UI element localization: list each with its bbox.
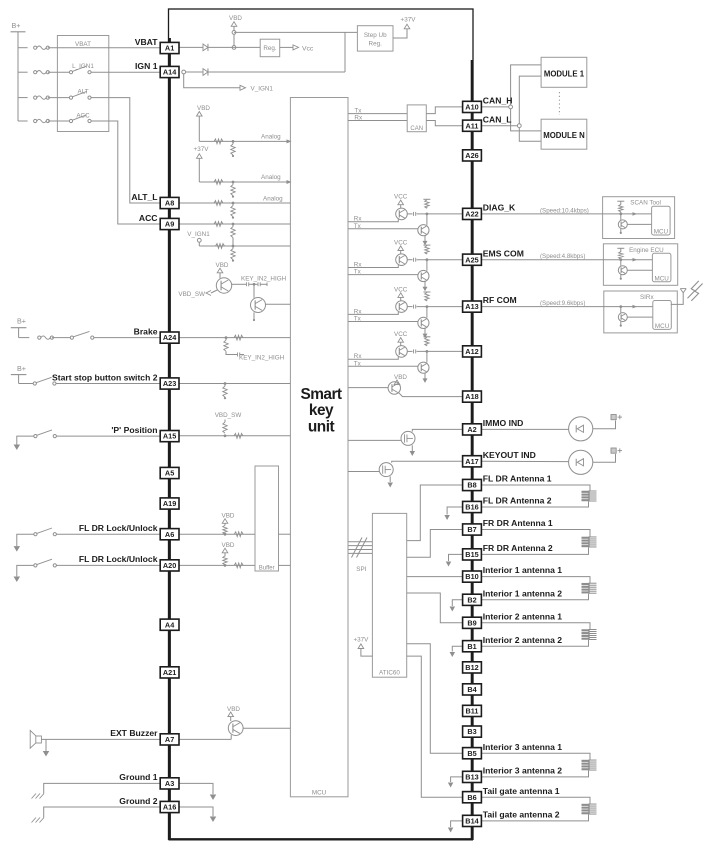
svg-text:Interior 1 antenna 2: Interior 1 antenna 2 xyxy=(483,588,562,598)
svg-text:B12: B12 xyxy=(465,663,478,672)
svg-text:B15: B15 xyxy=(465,550,478,559)
label FL DR Antenna 1 for pin B8 xyxy=(483,474,552,484)
svg-text:ACC: ACC xyxy=(139,213,158,223)
node RF COM xyxy=(426,305,429,308)
node CAN_L xyxy=(517,124,521,128)
+37V supply top xyxy=(393,17,416,39)
label FR DR Antenna 1 for pin B7 xyxy=(483,518,553,528)
antenna coil Interior 1 xyxy=(582,583,597,594)
SPI bus wires xyxy=(348,542,372,554)
svg-text:KEY_IN2_HIGH: KEY_IN2_HIGH xyxy=(239,355,285,362)
VBD_SW base label xyxy=(178,290,217,298)
MCU label xyxy=(312,790,327,797)
svg-text:Vcc: Vcc xyxy=(302,46,314,53)
node analog4 xyxy=(232,223,235,226)
transistor Q3 buzzer xyxy=(228,721,243,736)
svg-text:+37V: +37V xyxy=(353,637,369,644)
wire driver to B5 xyxy=(407,644,463,754)
wire FL DR lock 1 to A6 xyxy=(56,533,160,535)
svg-text:B14: B14 xyxy=(465,817,479,826)
svg-text:Step Ub: Step Ub xyxy=(364,32,387,39)
label Start stop button switch 2 for pin A23 xyxy=(52,372,158,382)
wire Q collector RF COM xyxy=(407,305,462,309)
SIRx MCU box xyxy=(653,301,672,330)
pullup SCAN tool xyxy=(617,201,624,214)
Q tx emitter A12 xyxy=(423,373,428,383)
node A23 xyxy=(224,382,227,385)
svg-text:VBD: VBD xyxy=(394,374,407,381)
svg-text:A7: A7 xyxy=(165,735,174,744)
label VBAT for pin A1 xyxy=(135,37,159,47)
label Analog 2 xyxy=(261,174,281,181)
wire CAN to A10 xyxy=(426,107,462,114)
fuse ACC row xyxy=(18,119,69,122)
wire VBD rail to step-up xyxy=(234,31,357,33)
wire B15 ground xyxy=(446,554,463,566)
series resistor below analog4 xyxy=(231,224,235,246)
wire MCU Tx to CAN xyxy=(348,113,407,115)
antenna coil Tail gate xyxy=(582,804,597,815)
wire node to Q tx EMS COM xyxy=(426,260,428,271)
wire CAN_L to moduleN xyxy=(519,128,541,142)
svg-text:(Speed:4.8kbps): (Speed:4.8kbps) xyxy=(540,253,585,260)
SCAN tool title xyxy=(630,200,661,207)
node analog1 xyxy=(232,140,235,143)
svg-text:SCAN Tool: SCAN Tool xyxy=(630,200,661,207)
node brake xyxy=(225,336,228,339)
svg-text:A16: A16 xyxy=(163,803,176,812)
wire antenna2 Interior 1 xyxy=(481,594,588,600)
label EMS COM for pin A25 xyxy=(483,248,524,258)
dotted line modules xyxy=(558,92,560,115)
svg-text:Engine ECU: Engine ECU xyxy=(629,247,664,254)
node at A14 pin xyxy=(182,70,186,74)
svg-text:B6: B6 xyxy=(467,793,476,802)
wire A6 to buffer xyxy=(179,533,255,535)
pin B13 xyxy=(463,771,482,782)
svg-text:FL DR Lock/Unlock: FL DR Lock/Unlock xyxy=(79,554,158,564)
svg-text:Ground 2: Ground 2 xyxy=(119,796,157,806)
wire node to Q tx A12 xyxy=(426,351,428,362)
antenna coil FL DR xyxy=(582,491,597,502)
wire buffer to MCU A20 xyxy=(279,564,291,566)
resistor R A15 xyxy=(234,433,243,438)
fuse VBAT row xyxy=(18,46,160,49)
wire driver to B7 xyxy=(407,530,463,558)
wire Rx RF COM xyxy=(348,312,398,314)
pin B8 xyxy=(463,479,482,490)
node CAN_H xyxy=(509,105,513,109)
fuse ALT row xyxy=(18,96,69,99)
SIRx box xyxy=(604,291,678,333)
pin A5 xyxy=(160,467,179,478)
right pin bus edge xyxy=(471,60,474,839)
svg-text:A18: A18 xyxy=(465,392,478,401)
node analog3 xyxy=(232,202,235,205)
svg-text:A14: A14 xyxy=(163,68,177,77)
wire L_IGN1 to A14 xyxy=(91,71,160,73)
transistor SCAN tool xyxy=(618,214,627,229)
step-up regulator box xyxy=(357,26,393,51)
svg-text:MCU: MCU xyxy=(312,790,327,797)
svg-text:A1: A1 xyxy=(165,44,174,53)
pin B7 xyxy=(463,524,482,535)
battery B+ start-stop xyxy=(11,364,27,384)
wire transistor SCAN tool to MCU xyxy=(627,223,651,225)
label ALT_L for pin A8 xyxy=(131,192,157,202)
wire driver to B8 xyxy=(407,485,463,541)
wire LED KEYOUT to B+ xyxy=(593,454,616,462)
SCAN tool MCU label xyxy=(654,229,669,236)
ATIC60 label xyxy=(379,669,400,676)
label IMMO IND for pin A2 xyxy=(483,418,524,428)
label Interior 1 antenna 2 for pin B2 xyxy=(483,588,562,598)
pin B14 xyxy=(463,815,482,826)
SIRx title xyxy=(640,294,654,301)
Tx label RF COM xyxy=(354,316,362,323)
node V_IGN1 row xyxy=(232,245,235,248)
svg-text:A4: A4 xyxy=(165,620,175,629)
pin B10 xyxy=(463,571,482,582)
pin B2 xyxy=(463,594,482,605)
wire Tx EMS COM xyxy=(348,274,418,276)
wire A1 to regulator xyxy=(179,46,260,48)
antenna driver ATIC60 box xyxy=(372,513,406,677)
svg-text:Interior 2 antenna 1: Interior 2 antenna 1 xyxy=(483,611,562,621)
transistor Q EMS COM rx xyxy=(396,254,408,266)
arrow analog1 into MCU xyxy=(287,139,292,143)
label Analog 3 xyxy=(263,195,283,202)
Vcc label xyxy=(302,46,314,53)
pullup resistor A12 xyxy=(423,337,430,346)
wire Tx A12 xyxy=(348,365,418,367)
svg-text:A11: A11 xyxy=(466,121,479,130)
wire A16 ground left xyxy=(44,807,161,818)
wire Tx RF COM xyxy=(348,321,418,323)
transistor Q DIAG_K tx xyxy=(418,225,429,236)
wire MCU to Q A18 xyxy=(348,387,388,389)
speed label SCAN tool xyxy=(540,207,589,214)
wire driver to B10 xyxy=(407,576,463,578)
node A12 xyxy=(426,350,429,353)
Tx label CAN xyxy=(354,108,362,115)
node analog2 xyxy=(232,181,235,184)
wire B14 ground xyxy=(448,821,463,833)
transistor Q A12 tx xyxy=(418,362,429,373)
svg-text:+37V: +37V xyxy=(401,17,417,24)
svg-text:Analog: Analog xyxy=(261,133,281,140)
wire A23 into MCU xyxy=(179,383,290,385)
label CAN_L for pin A11 xyxy=(483,114,512,124)
svg-text:A25: A25 xyxy=(465,255,478,264)
svg-text:B10: B10 xyxy=(465,572,478,581)
wire B13 ground xyxy=(448,777,463,788)
svg-text:(Speed:10.4kbps): (Speed:10.4kbps) xyxy=(540,207,589,214)
svg-text:FL DR Antenna 2: FL DR Antenna 2 xyxy=(483,496,552,506)
wire antenna1 Interior 2 xyxy=(481,623,590,629)
svg-text:FL DR Antenna 1: FL DR Antenna 1 xyxy=(483,474,552,484)
transistor Q RF COM tx xyxy=(418,317,429,328)
wire A2 to LED xyxy=(481,428,568,430)
svg-text:A6: A6 xyxy=(165,530,174,539)
label Interior 2 antenna 2 for pin B1 xyxy=(483,635,562,645)
label ACC for pin A9 xyxy=(139,213,158,223)
pin B15 xyxy=(463,549,482,560)
wire antenna1 FR DR xyxy=(481,530,590,537)
wire A3 ground right xyxy=(179,783,216,800)
transistor Q EMS COM tx xyxy=(418,270,429,281)
pin B3 xyxy=(463,726,482,737)
pin A18 xyxy=(463,391,482,402)
arrow SCAN tool xyxy=(633,212,638,216)
VCC supply RF COM xyxy=(394,286,408,301)
svg-text:V_IGN1: V_IGN1 xyxy=(251,86,274,93)
SPI bus slash marks xyxy=(352,538,368,558)
svg-text:B+: B+ xyxy=(17,317,26,326)
MCU inner box xyxy=(290,98,348,797)
svg-text:B11: B11 xyxy=(466,707,479,716)
svg-text:MCU: MCU xyxy=(654,229,669,236)
svg-text:VBAT: VBAT xyxy=(75,41,91,48)
svg-text:Interior 3 antenna 2: Interior 3 antenna 2 xyxy=(483,766,562,776)
pulldown resistor analog2 xyxy=(231,182,235,198)
pin A4 xyxy=(160,619,179,630)
ground arrow FL DR lock 2 xyxy=(14,565,34,582)
transistor Q A18 xyxy=(388,382,400,394)
wire MCU to FET KEYOUT xyxy=(348,471,379,473)
Rx label EMS COM xyxy=(354,262,363,269)
+37V supply driver xyxy=(353,637,372,657)
wire A17 to LED xyxy=(481,460,568,462)
ground hatch A16 xyxy=(32,818,45,823)
wire A3 ground left xyxy=(44,783,161,793)
wire antenna1 FL DR xyxy=(481,485,590,491)
svg-text:Tail gate antenna 2: Tail gate antenna 2 xyxy=(483,810,560,820)
pin B6 xyxy=(463,792,482,803)
pin A8 xyxy=(160,197,179,208)
wire MCU to FET IMMO xyxy=(348,439,401,441)
svg-text:Interior 3 antenna 1: Interior 3 antenna 1 xyxy=(483,742,562,752)
svg-text:FR DR Antenna 1: FR DR Antenna 1 xyxy=(483,518,553,528)
svg-text:B8: B8 xyxy=(467,481,476,490)
transistor Q A12 rx xyxy=(396,346,408,358)
wire ALT to A8 xyxy=(91,98,160,203)
diode D1 xyxy=(203,44,208,51)
wire A15 into MCU xyxy=(179,435,290,437)
SCAN tool box xyxy=(603,197,675,239)
svg-text:Tail gate antenna 1: Tail gate antenna 1 xyxy=(483,786,560,796)
wire node to Q tx RF COM xyxy=(426,307,428,318)
svg-text:IMMO IND: IMMO IND xyxy=(483,418,524,428)
CAN transceiver box xyxy=(407,105,426,132)
wire B1 ground xyxy=(450,646,463,657)
pin B9 xyxy=(463,617,482,628)
label Analog 1 xyxy=(261,133,281,140)
wire ACC to A9 xyxy=(91,121,160,224)
ground arrow FL DR lock 1 xyxy=(14,534,34,551)
speed label SIRx xyxy=(540,300,585,307)
pin A26 xyxy=(463,150,482,161)
FET KEYOUT ground xyxy=(387,476,393,487)
VBD supply buzzer xyxy=(227,706,240,721)
wire into SCAN tool xyxy=(481,213,651,215)
wire A20 to buffer xyxy=(179,564,255,566)
pin A21 xyxy=(160,667,179,678)
wire driver to B6 xyxy=(407,656,463,797)
resistor R A20 xyxy=(234,563,243,568)
svg-text:DIAG_K: DIAG_K xyxy=(483,203,516,213)
svg-text:A26: A26 xyxy=(465,151,478,160)
svg-text:B16: B16 xyxy=(465,503,478,512)
switch ACC xyxy=(69,113,91,123)
wire Q collector EMS COM xyxy=(407,258,462,262)
svg-text:Brake: Brake xyxy=(134,326,158,336)
wire A2 to FET xyxy=(412,429,462,431)
VBD supply key-in xyxy=(216,262,229,278)
svg-text:A17: A17 xyxy=(465,457,478,466)
Smart key unit title xyxy=(300,386,341,436)
resistor R V_IGN1 xyxy=(216,244,225,249)
pin B5 xyxy=(463,748,482,759)
pin B1 xyxy=(463,641,482,652)
buffer box xyxy=(255,466,279,571)
svg-text:V_IGN1: V_IGN1 xyxy=(187,231,210,238)
wire CAN_L to module1 xyxy=(519,76,541,124)
wire A8 analog3 xyxy=(179,202,290,204)
wire buffer to MCU A6 xyxy=(279,533,291,535)
label KEY_IN2_HIGH lower xyxy=(239,355,285,362)
svg-text:Analog: Analog xyxy=(261,174,281,181)
svg-text:VBD_SW: VBD_SW xyxy=(215,412,242,419)
label 'P' Position for pin A15 xyxy=(111,425,157,435)
pin A2 xyxy=(463,424,482,435)
wire transistor SIRx to MCU xyxy=(627,316,653,318)
transistor Q DIAG_K rx xyxy=(396,208,408,220)
arrow analog2 into MCU xyxy=(287,180,292,184)
svg-text:A8: A8 xyxy=(165,199,174,208)
wire Q collector A12 xyxy=(407,349,462,353)
bottom edge xyxy=(169,838,474,840)
svg-text:A22: A22 xyxy=(465,210,478,219)
pin A7 xyxy=(160,734,179,745)
resistor R analog4 xyxy=(214,222,223,227)
node SCAN tool xyxy=(619,213,622,216)
svg-text:Interior 1 antenna 1: Interior 1 antenna 1 xyxy=(483,565,562,575)
pulldown resistor analog1 xyxy=(231,141,235,157)
wire Rx A12 xyxy=(348,357,398,359)
transistor SIRx gnd xyxy=(620,321,622,326)
wire analog1 xyxy=(199,140,286,142)
VBD supply A20 xyxy=(222,542,235,567)
pin A19 xyxy=(160,498,179,509)
Tx label EMS COM xyxy=(354,269,362,276)
SCAN tool MCU box xyxy=(652,206,671,235)
pin A9 xyxy=(160,218,179,229)
buffer label xyxy=(259,566,275,572)
node VBD on A1 line xyxy=(232,46,236,50)
svg-text:A20: A20 xyxy=(163,561,176,570)
label Interior 3 antenna 2 for pin B13 xyxy=(483,766,562,776)
battery B+ top-left xyxy=(11,21,26,121)
Q tx emitter RF COM xyxy=(423,328,428,338)
Rx label RF COM xyxy=(354,308,363,315)
wire A10 to node xyxy=(481,106,508,108)
svg-text:IGN 1: IGN 1 xyxy=(135,61,158,71)
ignition switch box xyxy=(57,36,108,132)
engine ECU box xyxy=(603,244,677,285)
label Ground 1 for pin A3 xyxy=(119,772,157,782)
svg-text:FL DR Lock/Unlock: FL DR Lock/Unlock xyxy=(79,523,158,533)
label FL DR Lock/Unlock for pin A20 xyxy=(79,554,158,564)
battery B+ brake xyxy=(11,317,27,338)
Tx label DIAG_K xyxy=(354,223,362,230)
pin B4 xyxy=(463,684,482,695)
wire node to Q tx DIAG_K xyxy=(426,214,428,225)
pin A17 xyxy=(463,456,482,467)
wire antenna1 Interior 1 xyxy=(481,577,590,583)
wire start-stop to A23 xyxy=(56,383,160,385)
arrow SIRx xyxy=(633,305,638,309)
svg-text:A13: A13 xyxy=(465,302,478,311)
label Interior 3 antenna 1 for pin B5 xyxy=(483,742,562,752)
transistor engine ECU xyxy=(618,260,627,275)
wire antenna2 Tail gate xyxy=(481,815,588,821)
RF waves symbol xyxy=(688,281,703,301)
pin A25 xyxy=(463,254,482,265)
svg-text:VBD: VBD xyxy=(197,105,210,112)
svg-text:EMS COM: EMS COM xyxy=(483,248,524,258)
wire antenna1 Tail gate xyxy=(481,797,590,803)
pin A22 xyxy=(463,208,482,219)
resistor R analog2 xyxy=(214,180,223,185)
LED IMMO indicator xyxy=(569,417,593,441)
pin A24 xyxy=(160,332,179,343)
svg-text:MCU: MCU xyxy=(655,275,670,282)
Q tx emitter EMS COM xyxy=(423,281,428,291)
label VBAT row xyxy=(75,41,91,48)
transistor SIRx xyxy=(618,307,627,322)
wire A17 to FET xyxy=(392,461,463,463)
wire CAN_H to moduleN xyxy=(511,109,541,131)
resistor R brake xyxy=(234,335,243,340)
switch P position xyxy=(34,430,57,438)
wire antenna1 Interior 3 xyxy=(481,753,590,759)
pullup resistor EMS COM xyxy=(423,245,430,254)
label CAN_H for pin A10 xyxy=(483,96,513,106)
label Ground 2 for pin A16 xyxy=(119,796,157,806)
svg-text:RF COM: RF COM xyxy=(483,295,517,305)
wire transistor engine ECU to MCU xyxy=(627,269,652,271)
switch FL DR lock 2 xyxy=(34,559,57,567)
FET Q KEYOUT xyxy=(379,463,393,477)
VCC supply DIAG_K xyxy=(394,194,408,209)
wire A11 to node xyxy=(481,125,517,127)
transistor Q RF COM rx xyxy=(396,301,408,313)
Q3 emitter to A7 line xyxy=(179,735,231,740)
svg-text:A2: A2 xyxy=(467,425,476,434)
VCC supply A12 xyxy=(394,331,408,346)
svg-text:FR DR Antenna 2: FR DR Antenna 2 xyxy=(483,543,553,553)
pin A13 xyxy=(463,301,482,312)
svg-text:ACC: ACC xyxy=(76,113,90,120)
wire into engine ECU xyxy=(481,259,652,261)
svg-text:B7: B7 xyxy=(467,525,476,534)
svg-text:ATIC60: ATIC60 xyxy=(379,669,400,676)
switch brake xyxy=(70,331,94,339)
pullup resistor A15 xyxy=(223,420,227,438)
label KEY_IN2_HIGH upper xyxy=(241,276,287,283)
label KEYOUT IND for pin A17 xyxy=(483,450,536,460)
